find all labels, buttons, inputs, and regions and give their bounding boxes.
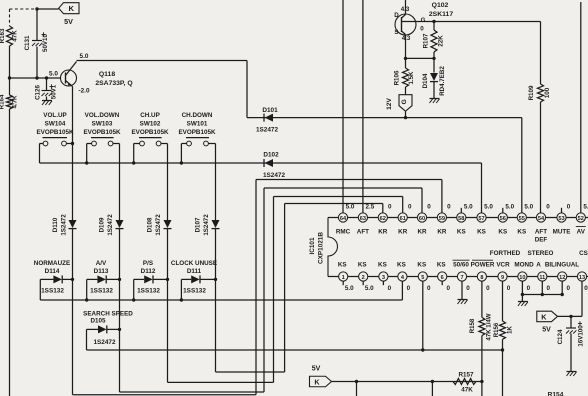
wire function rail to pin 4: [40, 299, 402, 301]
wire D102 to pin57: [481, 163, 483, 213]
svg-text:STEREO: STEREO: [528, 250, 554, 257]
svg-text:R156: R156: [493, 322, 500, 337]
svg-text:C126: C126: [35, 85, 42, 100]
svg-text:57: 57: [478, 216, 484, 222]
svg-text:0: 0: [427, 204, 431, 211]
svg-text:5.0: 5.0: [583, 204, 588, 211]
wire 5V to pin13: [558, 315, 583, 317]
svg-text:0: 0: [566, 285, 570, 292]
svg-text:56: 56: [500, 216, 506, 222]
svg-text:CXP1021B: CXP1021B: [318, 232, 325, 264]
wire pin52 up: [580, 2, 582, 213]
svg-text:1S2472: 1S2472: [263, 172, 285, 179]
svg-text:8: 8: [480, 275, 483, 281]
svg-text:5.0: 5.0: [49, 71, 58, 78]
diode D101: [263, 114, 265, 122]
node rail junctions: [85, 298, 88, 301]
svg-text:5.0: 5.0: [484, 204, 493, 211]
svg-text:22K: 22K: [438, 35, 445, 47]
svg-text:0: 0: [466, 285, 470, 292]
svg-text:KS: KS: [338, 262, 347, 269]
wire pin63 to top: [362, 0, 364, 213]
svg-text:R164: R164: [0, 94, 6, 109]
wire source to R107 node: [406, 57, 435, 59]
svg-text:SEARCH SPEED: SEARCH SPEED: [83, 311, 133, 318]
capacitor C124: [570, 316, 572, 328]
resistor R109: [540, 22, 542, 85]
wire D101 line: [247, 117, 522, 119]
wire tap down 1: [356, 382, 358, 396]
svg-text:1S2472: 1S2472: [256, 127, 278, 134]
svg-text:R107: R107: [423, 33, 430, 48]
svg-text:55: 55: [519, 216, 525, 222]
svg-text:0: 0: [420, 26, 424, 33]
svg-text:C124: C124: [557, 329, 564, 344]
svg-text:R157: R157: [458, 372, 474, 379]
svg-text:7: 7: [460, 275, 463, 281]
svg-text:50/60: 50/60: [453, 262, 469, 269]
svg-text:47K: 47K: [12, 30, 19, 42]
svg-text:D101: D101: [262, 107, 278, 114]
svg-text:KS: KS: [358, 262, 367, 269]
svg-text:5.0: 5.0: [365, 285, 374, 292]
svg-text:R154: R154: [548, 392, 564, 396]
svg-text:0: 0: [408, 204, 412, 211]
svg-text:47K 1/4W: 47K 1/4W: [486, 313, 493, 340]
svg-text:Q102: Q102: [432, 2, 449, 9]
wire pin5 drop: [422, 281, 424, 350]
wire 5V feed line: [332, 381, 482, 383]
svg-text:D111: D111: [187, 268, 202, 275]
svg-text:5: 5: [421, 275, 424, 281]
svg-text:4.3: 4.3: [402, 35, 411, 42]
diode D109 and key column wire: [119, 144, 121, 221]
svg-text:0: 0: [447, 204, 451, 211]
resistor R164: [9, 78, 11, 95]
wire Q102 source: [405, 35, 407, 58]
svg-text:D109: D109: [99, 217, 106, 232]
svg-text:P/S: P/S: [143, 260, 153, 267]
resistor R163: [7, 26, 13, 46]
wire pins 10-12 ground: [521, 281, 523, 295]
svg-text:AFT: AFT: [357, 229, 369, 236]
svg-text:2.5: 2.5: [366, 204, 375, 211]
svg-text:POWER: POWER: [471, 262, 495, 269]
svg-text:MUTE: MUTE: [553, 229, 571, 236]
svg-text:EVOPB105K: EVOPB105K: [36, 129, 74, 136]
svg-text:D108: D108: [147, 217, 154, 232]
node 5V junction: [35, 7, 38, 10]
svg-text:Q118: Q118: [99, 71, 115, 78]
svg-text:CH.DOWN: CH.DOWN: [182, 112, 213, 119]
resistor R158 pin8 column: [481, 281, 483, 318]
wire pin7 ground: [461, 281, 463, 299]
svg-text:16V100: 16V100: [578, 325, 585, 347]
svg-text:KR: KR: [437, 229, 447, 236]
diode D112 P/S: [133, 279, 135, 300]
svg-text:0: 0: [527, 285, 531, 292]
svg-text:KS: KS: [457, 229, 466, 236]
svg-text:R163: R163: [0, 28, 6, 43]
svg-text:0: 0: [427, 285, 431, 292]
svg-text:0: 0: [567, 204, 571, 211]
svg-text:RMC: RMC: [336, 229, 351, 236]
wire base node: [10, 77, 61, 79]
svg-text:FORTHED: FORTHED: [490, 250, 521, 257]
svg-text:0: 0: [547, 285, 551, 292]
svg-text:D102: D102: [263, 152, 279, 159]
wire D105 rail to pin 9 net: [87, 349, 503, 351]
svg-text:11: 11: [539, 275, 545, 281]
IC bottom pin circles 1-13: [339, 272, 348, 281]
svg-text:KS: KS: [378, 262, 387, 269]
diode D114 NORMAUZE: [39, 279, 41, 300]
svg-text:2SK117: 2SK117: [429, 11, 453, 18]
svg-text:C131: C131: [24, 35, 31, 50]
svg-text:SW102: SW102: [140, 121, 161, 128]
svg-text:D110: D110: [52, 217, 59, 232]
svg-text:KS: KS: [498, 229, 507, 236]
svg-text:AV: AV: [577, 229, 586, 236]
svg-text:KS: KS: [437, 262, 446, 269]
svg-text:50V1: 50V1: [51, 84, 58, 99]
svg-text:K: K: [69, 4, 75, 13]
svg-text:KR: KR: [378, 229, 388, 236]
svg-text:1S2472: 1S2472: [61, 214, 68, 236]
svg-text:0: 0: [407, 285, 411, 292]
svg-text:1SS132: 1SS132: [41, 288, 64, 295]
svg-text:CS: CS: [579, 250, 588, 257]
svg-text:R158: R158: [469, 318, 476, 333]
svg-text:1S2472: 1S2472: [155, 214, 162, 236]
svg-text:BILINGUAL: BILINGUAL: [545, 262, 579, 269]
svg-text:RD4.7EB2: RD4.7EB2: [439, 66, 446, 96]
svg-text:1SS132: 1SS132: [137, 288, 160, 295]
svg-text:G: G: [401, 99, 408, 104]
svg-text:SW104: SW104: [45, 121, 66, 128]
svg-text:5.0: 5.0: [464, 204, 473, 211]
svg-text:9: 9: [501, 275, 504, 281]
svg-text:1S2472: 1S2472: [203, 214, 210, 236]
resistor R107: [433, 22, 435, 31]
svg-text:SW101: SW101: [187, 121, 208, 128]
svg-text:5.0: 5.0: [80, 53, 89, 60]
svg-text:1S2472: 1S2472: [107, 214, 114, 236]
ground D104: [430, 98, 440, 100]
svg-text:CH.UP: CH.UP: [140, 112, 160, 119]
svg-text:AFT: AFT: [535, 229, 547, 236]
svg-text:53: 53: [558, 216, 564, 222]
svg-text:SW103: SW103: [92, 121, 113, 128]
svg-text:KS: KS: [517, 229, 526, 236]
switch SW104 VOL.UP: [43, 141, 48, 146]
diode D110 and key column wire: [72, 87, 74, 221]
svg-text:KS: KS: [417, 262, 426, 269]
wire Q118 collector to D101: [77, 60, 248, 62]
node base junctions: [8, 76, 11, 79]
svg-text:58: 58: [458, 216, 464, 222]
svg-text:K: K: [541, 312, 547, 321]
svg-text:D113: D113: [94, 268, 109, 275]
wire pin64 to top: [342, 0, 344, 213]
wire Q102 drain to top: [405, 0, 407, 14]
svg-text:0: 0: [584, 285, 588, 292]
resistor R156 pin9 column: [502, 281, 504, 321]
svg-text:EVOPB105K: EVOPB105K: [131, 129, 169, 136]
switch SW101 CH.DOWN: [187, 141, 192, 146]
svg-text:MOND: MOND: [514, 262, 534, 269]
svg-text:1.5K: 1.5K: [408, 71, 415, 85]
svg-text:100: 100: [544, 87, 551, 98]
svg-text:R106: R106: [394, 70, 401, 85]
wire key bus D102 line: [40, 162, 482, 164]
svg-text:62: 62: [380, 216, 386, 222]
svg-text:G: G: [421, 17, 426, 24]
svg-text:60: 60: [419, 216, 425, 222]
svg-text:0: 0: [388, 204, 392, 211]
wire R163 to base node: [9, 46, 11, 78]
diode D108 and key column wire: [167, 144, 169, 221]
svg-text:CLOCK UNUSE: CLOCK UNUSE: [171, 260, 217, 267]
svg-text:5V: 5V: [64, 17, 73, 26]
svg-text:10: 10: [519, 275, 525, 281]
svg-text:S: S: [394, 29, 398, 36]
resistor R106: [405, 58, 407, 68]
svg-text:0: 0: [388, 285, 392, 292]
svg-text:5.0: 5.0: [345, 285, 354, 292]
diode D113 A/V: [86, 279, 88, 300]
svg-text:1S2472: 1S2472: [93, 339, 115, 346]
svg-text:DEF: DEF: [535, 237, 548, 244]
svg-text:D112: D112: [141, 268, 156, 275]
switch SW103 VOL.DOWN: [92, 141, 97, 146]
connector K 5V (top left): [59, 3, 79, 14]
svg-text:A: A: [536, 262, 541, 269]
svg-text:KR: KR: [417, 229, 427, 236]
svg-text:KR: KR: [398, 229, 408, 236]
svg-text:1SS132: 1SS132: [183, 288, 206, 295]
svg-text:NORMAUZE: NORMAUZE: [34, 260, 70, 267]
svg-text:0: 0: [507, 285, 511, 292]
svg-text:5.0: 5.0: [524, 204, 533, 211]
svg-text:4.7K: 4.7K: [12, 95, 19, 109]
svg-text:12: 12: [559, 275, 565, 281]
svg-text:2SA733P, Q: 2SA733P, Q: [95, 80, 132, 87]
svg-text:1SS132: 1SS132: [90, 288, 113, 295]
svg-text:47K: 47K: [461, 387, 473, 394]
diode D105 SEARCH SPEED: [86, 329, 88, 350]
svg-text:12V: 12V: [386, 98, 393, 110]
transistor Q102: [395, 14, 416, 35]
svg-text:K: K: [314, 377, 320, 386]
diode D102: [263, 159, 265, 167]
svg-text:D104: D104: [422, 73, 429, 88]
ground C126: [42, 100, 52, 102]
svg-text:D105: D105: [90, 318, 106, 325]
svg-text:2: 2: [362, 275, 365, 281]
svg-text:A/V: A/V: [96, 260, 107, 267]
svg-text:5V: 5V: [542, 327, 551, 334]
svg-text:5V: 5V: [312, 366, 321, 373]
svg-text:50V10: 50V10: [42, 34, 49, 52]
svg-text:64: 64: [340, 216, 347, 222]
IC IC101 CXP1021B body: [328, 217, 588, 219]
svg-text:5.0: 5.0: [505, 204, 514, 211]
svg-text:54: 54: [538, 216, 545, 222]
svg-text:EVOPB105K: EVOPB105K: [178, 129, 216, 136]
wire Q102 gate line: [416, 21, 541, 23]
IC top pin circles 64-52: [338, 213, 347, 222]
svg-text:59: 59: [439, 216, 445, 222]
svg-text:1: 1: [342, 275, 345, 281]
transistor Q118: [61, 70, 77, 86]
svg-text:63: 63: [360, 216, 366, 222]
svg-text:13: 13: [579, 275, 585, 281]
svg-text:0: 0: [486, 285, 490, 292]
capacitor C131: [36, 9, 38, 41]
svg-text:KS: KS: [397, 262, 406, 269]
svg-text:61: 61: [400, 216, 406, 222]
svg-text:-2.0: -2.0: [78, 88, 89, 95]
resistor R157: [453, 379, 476, 385]
wire tap down 2: [431, 382, 433, 396]
svg-text:R109: R109: [528, 85, 535, 100]
ground C124: [567, 371, 577, 373]
capacitor C126: [46, 78, 48, 91]
switch SW102 CH.UP: [140, 141, 145, 146]
IC bottom pin stubs: [342, 281, 344, 285]
svg-text:D114: D114: [45, 268, 60, 275]
diode D107 and key column wire: [215, 144, 217, 221]
svg-text:KS: KS: [477, 229, 486, 236]
diode D111 CLOCK UNUSE: [180, 279, 182, 300]
svg-text:52: 52: [578, 216, 584, 222]
svg-text:0: 0: [546, 204, 550, 211]
svg-text:5.0: 5.0: [346, 204, 355, 211]
node 5V line taps: [355, 380, 358, 383]
svg-text:VOL.UP: VOL.UP: [43, 112, 66, 119]
IC top pin stubs: [460, 208, 462, 213]
svg-text:VCR: VCR: [496, 262, 510, 269]
svg-text:0: 0: [446, 285, 450, 292]
power rail 5V dashed wire: [10, 8, 38, 10]
wire to 5V connector: [37, 8, 59, 10]
svg-text:6: 6: [441, 275, 444, 281]
svg-text:IC101: IC101: [309, 237, 316, 254]
connector K 5V (right): [537, 311, 558, 322]
svg-text:3: 3: [382, 275, 385, 281]
svg-text:VOL.DOWN: VOL.DOWN: [85, 112, 120, 119]
wire left column down: [9, 109, 11, 396]
svg-text:D107: D107: [195, 217, 202, 232]
svg-text:EVOPB105K: EVOPB105K: [83, 129, 121, 136]
svg-text:D: D: [394, 12, 399, 19]
diode D104 zener: [433, 58, 435, 72]
connector G 12V: [399, 95, 412, 112]
svg-text:1K: 1K: [507, 326, 514, 334]
node bus junctions: [85, 161, 88, 164]
